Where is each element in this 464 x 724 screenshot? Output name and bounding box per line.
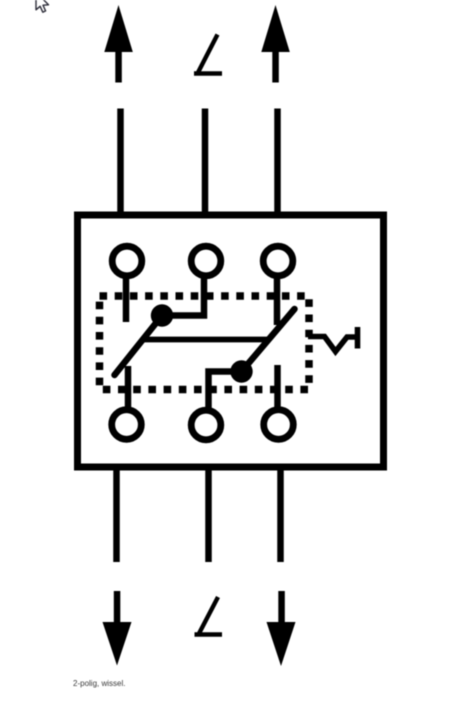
- wire bottom-middle: [205, 469, 212, 562]
- stem to T6 (bottom-right): [274, 365, 281, 408]
- down arrow A3 (bottom pole 1): [103, 591, 132, 666]
- dashed mechanism enclosure: [100, 296, 310, 390]
- mouse cursor: [36, 0, 49, 12]
- lever S1 (pole 1 blade): [115, 316, 163, 376]
- angle symbol (top common): [194, 35, 222, 74]
- stem from T3: [274, 277, 281, 325]
- wire bottom-right: [277, 469, 284, 562]
- component box U1: [78, 215, 384, 467]
- stem from T1: [123, 277, 130, 322]
- down arrow A4 (bottom pole 2): [267, 591, 296, 666]
- up arrow A1 (top pole 1): [104, 5, 133, 83]
- terminal T1 (top-left): [112, 246, 142, 276]
- coupling bar: [142, 337, 270, 343]
- terminal T2 (top-middle): [191, 246, 221, 276]
- actuator link with kink: [308, 327, 358, 352]
- pivot dot D2: [230, 360, 252, 382]
- stem from T2 with elbow to pivot: [162, 277, 204, 316]
- wire top-right: [274, 109, 281, 214]
- stem to T4 (bottom-left): [125, 366, 132, 408]
- terminal T4 (bottom-left): [112, 410, 142, 440]
- wire top-left: [117, 109, 124, 214]
- elbow from D2 to bottom-middle terminal: [209, 372, 242, 409]
- terminal T3 (top-right): [263, 246, 293, 276]
- wire top-middle: [202, 109, 209, 214]
- terminal T5 (bottom-middle): [191, 410, 221, 440]
- terminal T6 (bottom-right): [264, 410, 294, 440]
- svg-text:2-polig, wissel.: 2-polig, wissel.: [73, 679, 125, 688]
- up arrow A2 (top pole 2): [261, 5, 290, 83]
- angle symbol (bottom common): [195, 597, 223, 635]
- lever S2 (pole 2 blade): [242, 309, 295, 372]
- pivot dot D1: [151, 304, 173, 326]
- wire bottom-left: [113, 469, 120, 562]
